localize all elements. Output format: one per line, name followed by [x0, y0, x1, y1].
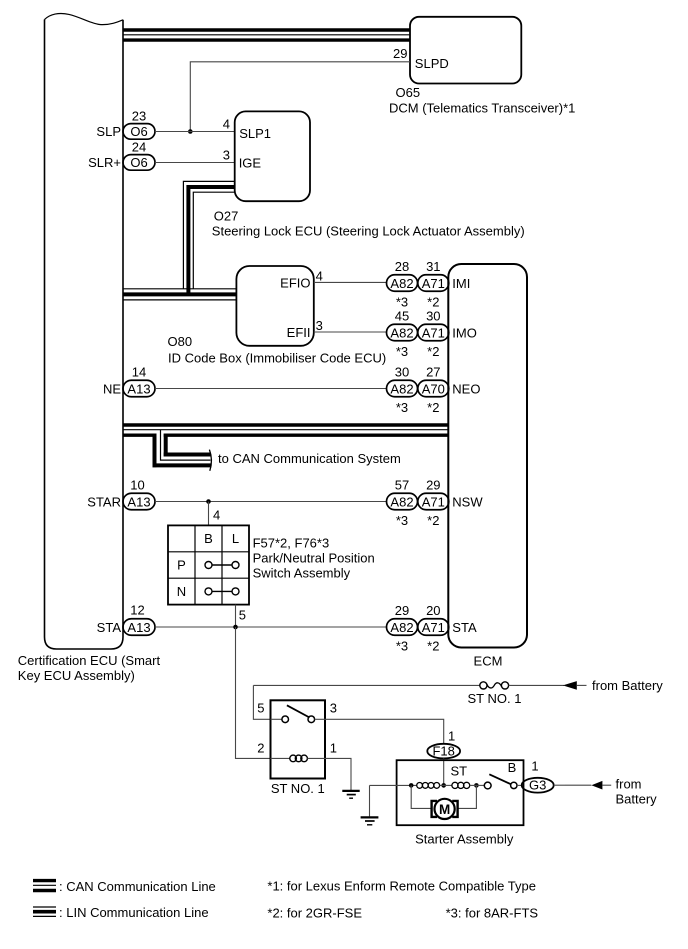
svg-text:Certification ECU (Smart: Certification ECU (Smart	[18, 653, 161, 668]
wire fuse line to relay pin 5	[253, 685, 270, 719]
svg-text:A71: A71	[422, 276, 445, 291]
svg-text:10: 10	[130, 478, 144, 493]
svg-text:F57*2, F76*3: F57*2, F76*3	[253, 536, 330, 551]
svg-text:14: 14	[132, 365, 146, 380]
svg-text:4: 4	[223, 117, 230, 132]
svg-text:IGE: IGE	[239, 156, 262, 171]
svg-text:NE: NE	[103, 381, 121, 396]
fuse line from Battery	[253, 684, 479, 686]
contact P row	[205, 562, 212, 569]
svg-text:: CAN Communication Line: : CAN Communication Line	[59, 879, 216, 894]
svg-text:1: 1	[330, 741, 337, 756]
legend CAN line symbol	[33, 879, 56, 882]
svg-text:29: 29	[393, 46, 407, 61]
svg-text:*3: *3	[396, 294, 408, 309]
svg-text:: LIN Communication Line: : LIN Communication Line	[59, 905, 209, 920]
svg-text:EFIO: EFIO	[280, 276, 310, 291]
svg-text:SLP: SLP	[96, 124, 121, 139]
wire F18 into starter	[443, 758, 445, 785]
wire STA tap to relay coil pin 2	[236, 627, 271, 758]
connector A82 (NSW)	[387, 493, 418, 510]
svg-text:O6: O6	[130, 155, 147, 170]
wire STAR to NSW	[155, 501, 387, 503]
CAN branch top thick	[164, 453, 211, 457]
junction dot left coil	[409, 783, 414, 788]
svg-text:*2: *2	[427, 294, 439, 309]
wire relay pin 1 to ground	[325, 758, 351, 790]
svg-text:A13: A13	[127, 494, 150, 509]
svg-text:B: B	[204, 531, 213, 546]
svg-text:A13: A13	[127, 620, 150, 635]
svg-text:45: 45	[395, 308, 409, 323]
svg-text:A13: A13	[127, 381, 150, 396]
wire pin 4 to park/neutral switch	[208, 502, 210, 526]
svg-text:Park/Neutral Position: Park/Neutral Position	[253, 551, 375, 566]
svg-text:*3: *3	[396, 513, 408, 528]
svg-text:O27: O27	[214, 209, 239, 224]
svg-text:*3: for 8AR-FTS: *3: for 8AR-FTS	[446, 906, 539, 921]
svg-text:M: M	[439, 802, 450, 817]
svg-text:ST NO. 1: ST NO. 1	[271, 781, 325, 796]
CAN bus top (Certification ECU to DCM)	[123, 28, 410, 31]
CAN branch thin drop	[161, 430, 211, 460]
svg-text:Battery: Battery	[616, 791, 658, 806]
starter hold-in coil	[417, 783, 423, 789]
CAN trunk bottom thick left segment	[123, 434, 157, 437]
svg-text:24: 24	[132, 140, 146, 155]
svg-text:STA: STA	[452, 620, 477, 635]
svg-text:30: 30	[426, 308, 440, 323]
svg-text:ST NO. 1: ST NO. 1	[468, 691, 522, 706]
svg-text:5: 5	[239, 608, 246, 623]
svg-text:SLP1: SLP1	[239, 126, 271, 141]
svg-text:28: 28	[395, 259, 409, 274]
ECM box	[448, 264, 527, 648]
svg-text:*2: *2	[427, 513, 439, 528]
connector O6 (pin 23)	[123, 124, 155, 140]
svg-text:EFII: EFII	[287, 325, 311, 340]
svg-text:O6: O6	[130, 124, 147, 139]
svg-text:29: 29	[426, 477, 440, 492]
Park/Neutral Position Switch grid	[168, 525, 249, 604]
svg-text:12: 12	[130, 603, 144, 618]
svg-text:IMO: IMO	[452, 325, 477, 340]
svg-text:3: 3	[223, 148, 230, 163]
svg-text:ECM: ECM	[474, 654, 503, 669]
svg-text:31: 31	[426, 259, 440, 274]
svg-text:F18: F18	[432, 744, 454, 759]
wire SLPD pin 29	[190, 62, 410, 132]
svg-text:ID Code Box (Immobiliser Code: ID Code Box (Immobiliser Code ECU)	[168, 351, 386, 366]
wire EFIO to IMI	[314, 281, 387, 283]
CAN trunk line (lower)	[123, 423, 448, 426]
wavy torn top edge of Certification ECU box	[45, 13, 124, 24]
CAN branch bottom thick	[153, 463, 212, 467]
svg-text:*3: *3	[396, 638, 408, 653]
svg-text:A82: A82	[390, 381, 413, 396]
CAN branch end cap	[209, 450, 211, 471]
Steering Lock ECU O27 box	[235, 111, 310, 201]
svg-text:20: 20	[426, 603, 440, 618]
junction dot STA relay tap	[233, 625, 238, 630]
svg-text:A70: A70	[422, 381, 445, 396]
wire EFII to IMO	[314, 331, 387, 333]
connector A70 (NEO)	[418, 380, 449, 397]
svg-text:G3: G3	[529, 778, 546, 793]
starter switch contact left	[484, 782, 491, 789]
svg-text:29: 29	[395, 603, 409, 618]
svg-text:STAR: STAR	[87, 494, 121, 509]
wire STA to ECM STA	[155, 626, 387, 628]
wire G3 to battery	[554, 784, 565, 786]
svg-text:A82: A82	[390, 325, 413, 340]
junction dot on SLP wire	[188, 129, 193, 134]
svg-text:SLR+: SLR+	[88, 155, 121, 170]
motor branch wires	[411, 785, 431, 808]
connector A13 (STAR)	[123, 493, 155, 510]
svg-text:IMI: IMI	[452, 276, 470, 291]
svg-text:5: 5	[257, 701, 264, 716]
starter switch contact right	[511, 782, 517, 788]
wire SLP to SLP1	[155, 131, 235, 133]
contact N row	[205, 588, 212, 595]
connector O6 (pin 24)	[123, 155, 155, 171]
svg-text:Key ECU Assembly): Key ECU Assembly)	[18, 668, 135, 683]
fuse ST NO. 1	[480, 682, 487, 689]
svg-text:A71: A71	[422, 494, 445, 509]
connector A13 (NE)	[123, 380, 155, 397]
svg-text:3: 3	[330, 701, 337, 716]
wire NE to NEO	[155, 388, 387, 390]
svg-text:N: N	[177, 584, 186, 599]
svg-text:A82: A82	[390, 276, 413, 291]
svg-text:A82: A82	[390, 620, 413, 635]
connector G3	[522, 778, 554, 793]
svg-text:2: 2	[257, 741, 264, 756]
svg-text:to CAN Communication System: to CAN Communication System	[218, 451, 401, 466]
LIN line Certification ECU to ID Code Box	[123, 288, 236, 290]
relay switch contacts	[271, 718, 282, 720]
connector A71 (NSW)	[418, 493, 449, 510]
connector A82 (STA)	[387, 619, 418, 636]
CAN branch drop thick	[153, 434, 157, 468]
Starter Assembly box	[397, 760, 524, 825]
svg-text:Steering Lock ECU (Steering Lo: Steering Lock ECU (Steering Lock Actuato…	[212, 224, 525, 239]
junction dot park/neutral tap	[206, 499, 211, 504]
svg-text:B: B	[508, 760, 517, 775]
svg-text:NSW: NSW	[452, 494, 483, 509]
svg-text:3: 3	[316, 318, 323, 333]
wire relay pin 3 to F18	[325, 719, 444, 744]
svg-text:23: 23	[132, 109, 146, 124]
junction dot motor branch	[474, 783, 479, 788]
LIN line Steering Lock ECU branch	[183, 181, 234, 288]
svg-text:27: 27	[426, 364, 440, 379]
svg-text:ST: ST	[451, 763, 468, 778]
motor M	[432, 801, 437, 817]
legend LIN line symbol	[33, 906, 56, 908]
svg-text:P: P	[177, 558, 186, 573]
connector A82 (IMO)	[387, 324, 418, 341]
svg-text:DCM (Telematics Transceiver)*1: DCM (Telematics Transceiver)*1	[389, 101, 575, 116]
relay ST NO. 1 box	[271, 700, 326, 778]
CAN branch second drop thick	[164, 434, 168, 457]
svg-text:O80: O80	[168, 334, 193, 349]
CAN trunk bottom thick right segment	[164, 434, 449, 437]
connector A71 (STA)	[418, 619, 449, 636]
svg-text:*2: *2	[427, 638, 439, 653]
svg-text:1: 1	[531, 758, 538, 773]
connector A82 (IMI)	[387, 275, 418, 292]
ground (relay)	[342, 790, 359, 792]
svg-text:*2: *2	[427, 344, 439, 359]
junction dot F18 feed	[441, 783, 446, 788]
svg-text:*2: *2	[427, 400, 439, 415]
svg-text:4: 4	[213, 508, 220, 523]
connector F18	[427, 744, 460, 759]
Certification ECU box (Smart Key ECU Assembly)	[45, 20, 124, 650]
svg-text:from: from	[616, 777, 642, 792]
svg-text:NEO: NEO	[452, 381, 480, 396]
wire pin 5 from switch to STA wire	[235, 605, 237, 627]
relay coil	[271, 757, 290, 759]
svg-text:A71: A71	[422, 325, 445, 340]
connector A71 (IMO)	[418, 324, 449, 341]
connector A82 (NEO)	[387, 380, 418, 397]
svg-text:A82: A82	[390, 494, 413, 509]
DCM O65 box	[410, 17, 521, 84]
connector A71 (IMI)	[418, 275, 449, 292]
svg-text:*1: for Lexus Enform Remote Co: *1: for Lexus Enform Remote Compatible T…	[267, 879, 536, 894]
svg-text:30: 30	[395, 364, 409, 379]
svg-text:Starter Assembly: Starter Assembly	[415, 831, 514, 846]
starter pull-in coil	[452, 782, 458, 788]
wire SLR+ to IGE	[155, 162, 235, 164]
svg-text:4: 4	[316, 268, 323, 283]
connector A13 (STA)	[123, 619, 155, 636]
svg-text:*3: *3	[396, 344, 408, 359]
svg-text:*3: *3	[396, 400, 408, 415]
svg-text:O65: O65	[396, 85, 421, 100]
svg-text:STA: STA	[97, 620, 122, 635]
svg-text:L: L	[232, 531, 239, 546]
svg-text:57: 57	[395, 477, 409, 492]
svg-text:A71: A71	[422, 620, 445, 635]
svg-text:1: 1	[448, 728, 455, 743]
ID Code Box O80	[236, 266, 313, 346]
svg-text:Switch Assembly: Switch Assembly	[253, 566, 351, 581]
ground (starter)	[369, 785, 371, 816]
svg-text:SLPD: SLPD	[415, 56, 449, 71]
svg-text:from Battery: from Battery	[592, 678, 663, 693]
arrow from Battery (lower)	[591, 781, 602, 790]
svg-text:*2: for 2GR-FSE: *2: for 2GR-FSE	[267, 906, 362, 921]
arrow from Battery (upper)	[563, 681, 577, 690]
starter switch blade	[489, 774, 511, 784]
wire ground lead into starter coils	[370, 784, 418, 786]
